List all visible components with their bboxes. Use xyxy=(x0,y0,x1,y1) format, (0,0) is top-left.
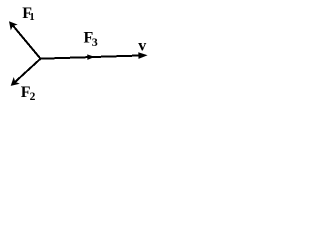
vector force diagram xyxy=(0,0,157,106)
vector v arrowhead (end) xyxy=(138,52,147,59)
vector F2 arrowhead xyxy=(11,77,20,86)
svg-text:3: 3 xyxy=(92,35,98,49)
svg-text:1: 1 xyxy=(29,11,35,23)
vector F3 arrowhead (mid) xyxy=(87,54,95,60)
svg-text:v: v xyxy=(138,38,146,55)
vector F2 shaft xyxy=(14,59,41,83)
svg-text:2: 2 xyxy=(30,91,36,103)
vector F1 arrowhead xyxy=(9,21,18,30)
vector F1 shaft xyxy=(12,25,40,59)
vector F3 / v shaft xyxy=(41,55,144,58)
